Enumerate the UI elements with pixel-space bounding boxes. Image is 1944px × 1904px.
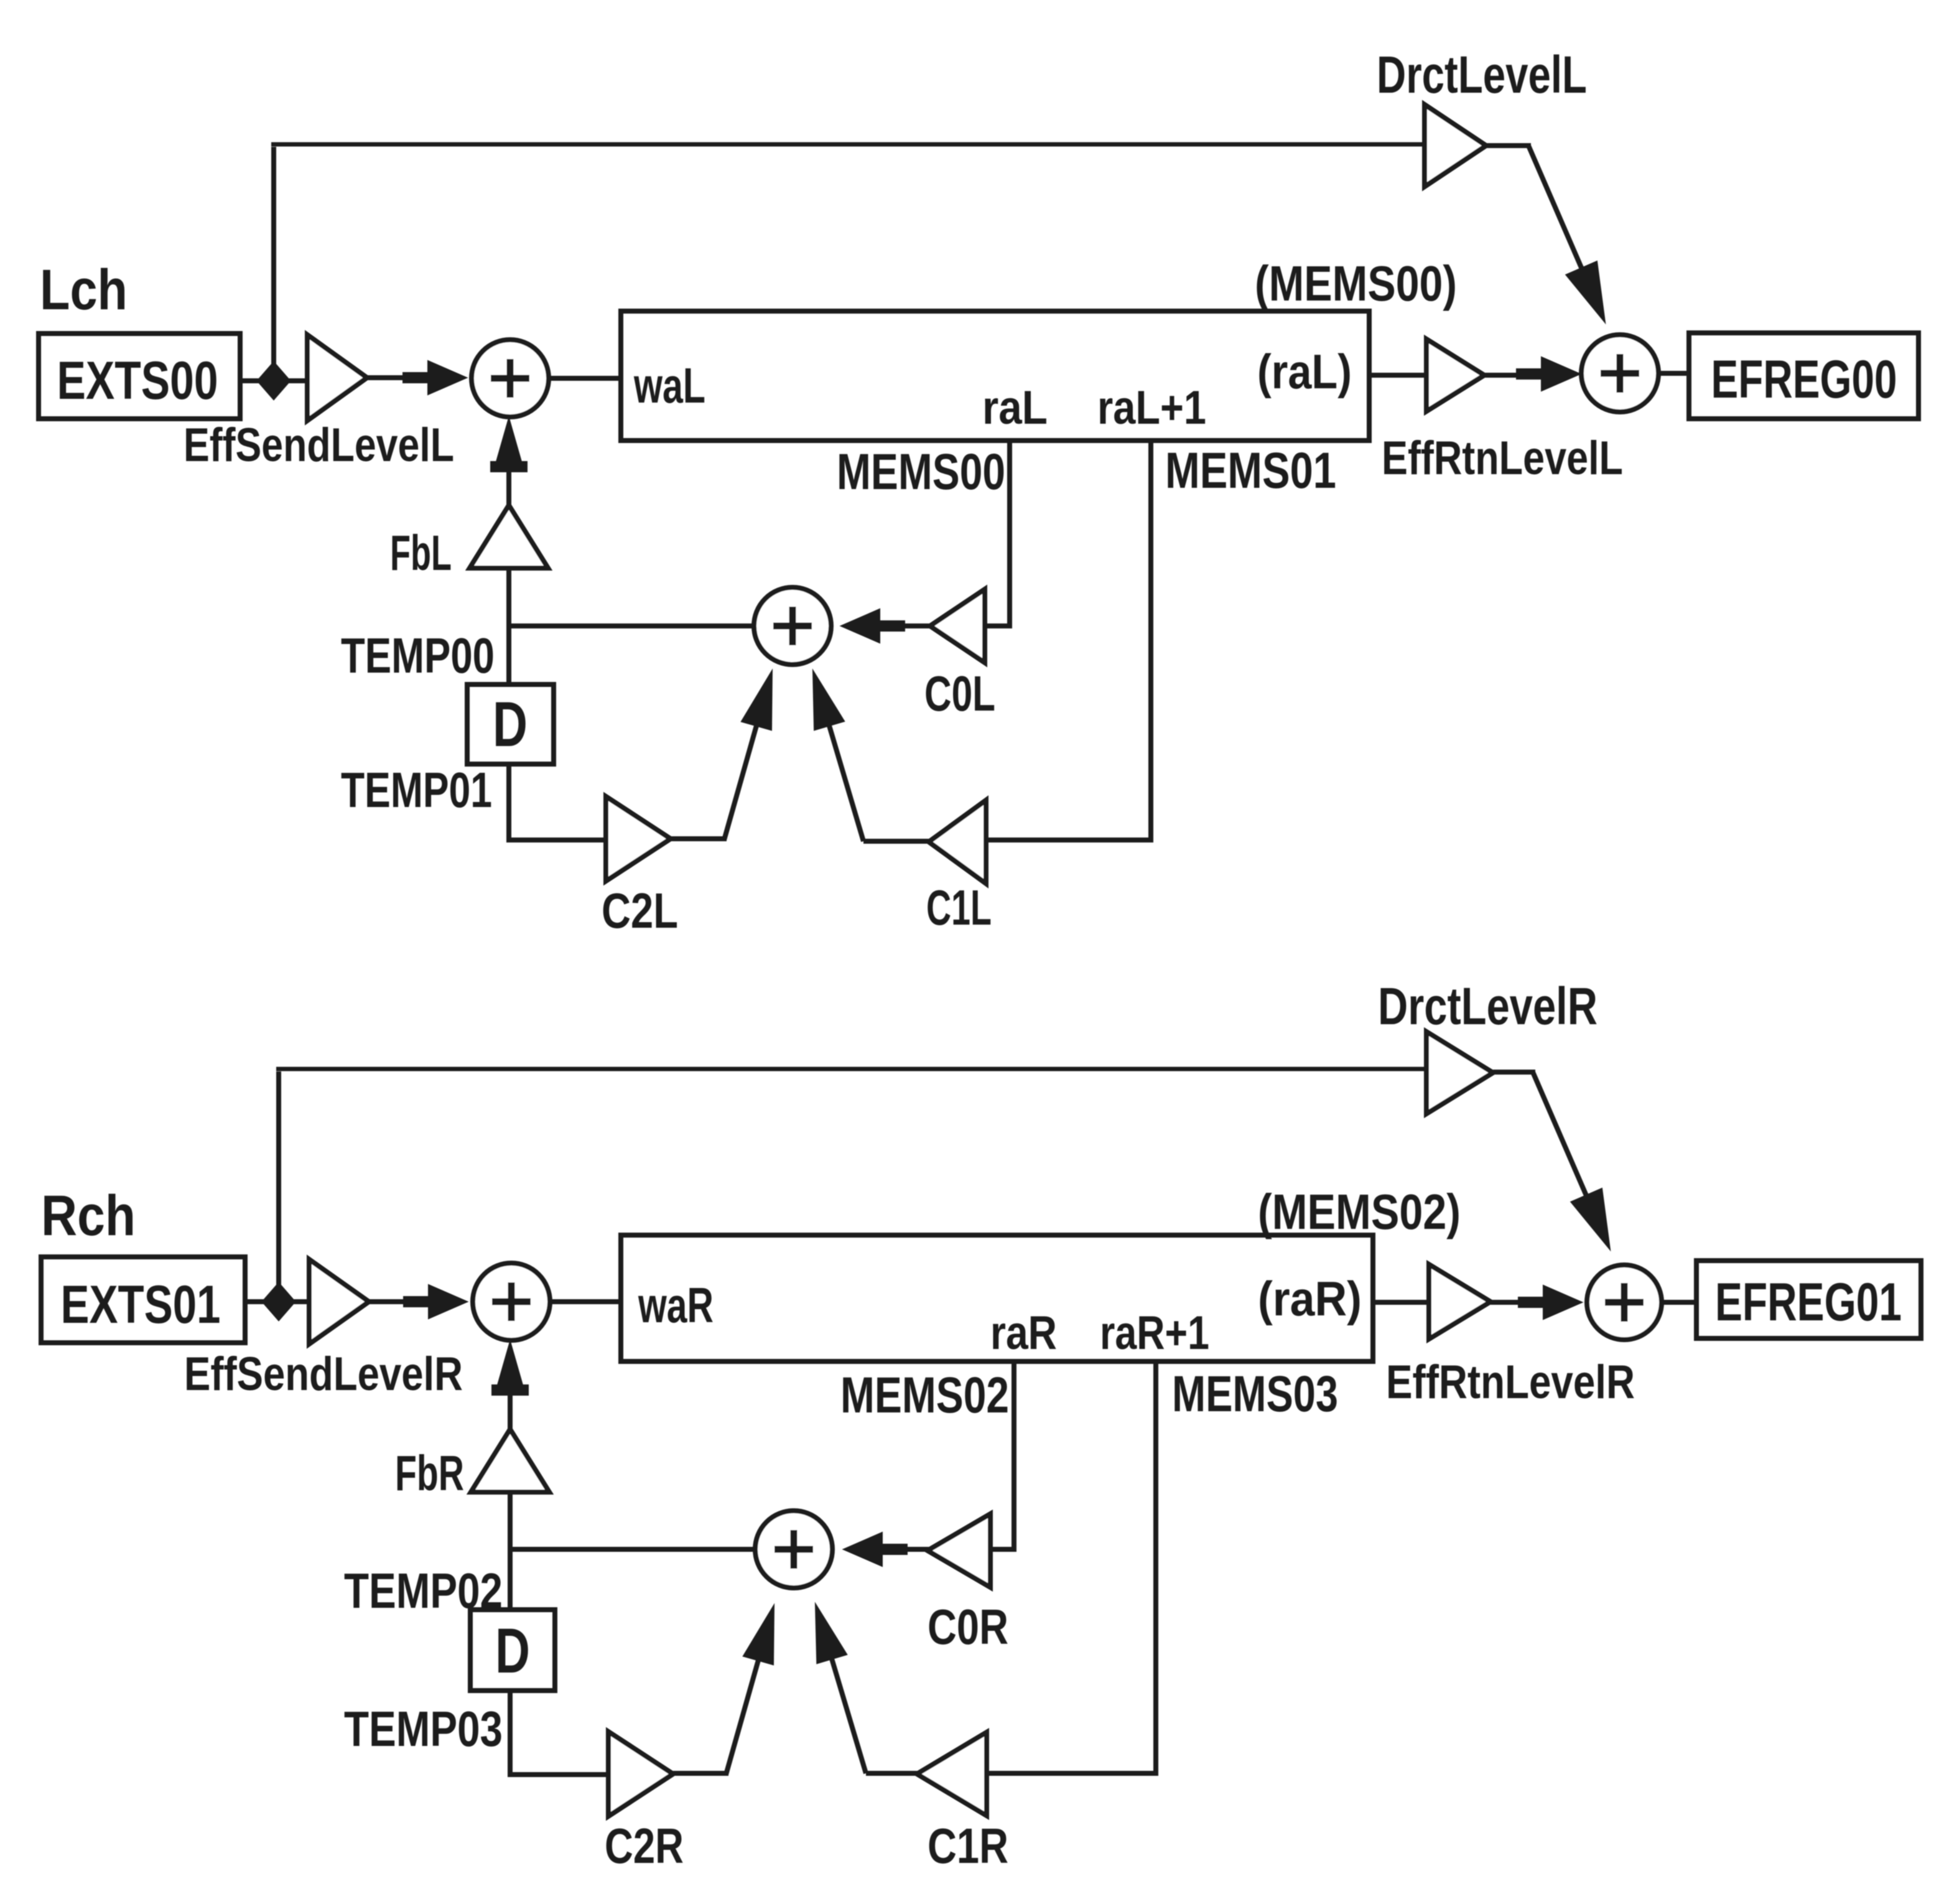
- amp EffRtnLevelL: [1426, 339, 1484, 411]
- svg-text:EffSendLevelL: EffSendLevelL: [184, 419, 454, 472]
- amp C0L: [930, 589, 985, 663]
- svg-text:TEMP00: TEMP00: [341, 628, 495, 683]
- arrow C0L into adder S2L: [841, 609, 905, 643]
- svg-text:EffSendLevelR: EffSendLevelR: [184, 1348, 463, 1401]
- wire junction up to direct path R: [276, 1071, 281, 1302]
- wire tap MEMS02 raR: [990, 1361, 1014, 1549]
- wire junction up to direct path: [271, 147, 276, 381]
- wire EffRtnLevelL to arrow: [1484, 373, 1530, 378]
- wire diagonal direct to adder S3L: [1528, 146, 1583, 272]
- adder S3R output: [1587, 1265, 1662, 1340]
- wire diagonal C1R to adder S2R: [818, 1613, 866, 1773]
- wire tap MEMS01 raL+1: [986, 441, 1151, 840]
- arrow C2R into adder S2R: [743, 1605, 774, 1664]
- arrow C1L into adder S2L: [813, 671, 844, 730]
- arrow direct into adder S3L: [1566, 261, 1605, 322]
- wire FbL to adder S1L: [506, 436, 511, 506]
- adder S2L: [754, 587, 831, 665]
- wire amp to arrow: [367, 375, 435, 380]
- amp FbL: [470, 505, 548, 568]
- svg-text:MEMS03: MEMS03: [1172, 1366, 1338, 1422]
- wire C1L out: [863, 839, 931, 844]
- wire EXTS00 to junction: [240, 378, 307, 383]
- svg-text:C2R: C2R: [605, 1818, 684, 1874]
- wire EXTS01 to junction: [245, 1299, 311, 1304]
- wire direct path top Rch: [276, 1067, 1428, 1071]
- wire EffRtnLevelR to arrow: [1491, 1300, 1532, 1305]
- amp C1L: [929, 800, 986, 884]
- svg-text:(raL): (raL): [1257, 344, 1352, 399]
- adder S2R: [755, 1511, 832, 1588]
- wire feedback vertical TEMP02: [508, 1492, 513, 1611]
- arrow feedback into adder S1L: [491, 418, 527, 472]
- amp EffRtnLevelR: [1429, 1264, 1491, 1339]
- delay block D (Rch): [470, 1610, 555, 1691]
- svg-text:C1L: C1L: [926, 880, 992, 935]
- svg-text:D: D: [495, 1615, 530, 1686]
- svg-text:C1R: C1R: [928, 1818, 1008, 1874]
- wire FbR to adder S1R: [508, 1359, 513, 1430]
- wire amp to arrow R: [369, 1299, 437, 1304]
- adder S1R: [473, 1263, 550, 1340]
- svg-text:(raR): (raR): [1258, 1271, 1362, 1326]
- wire adder S3R to EFREG01: [1662, 1300, 1699, 1305]
- svg-text:TEMP01: TEMP01: [341, 762, 492, 818]
- wire tap MEMS03 raR+1: [989, 1361, 1156, 1773]
- svg-text:(MEMS00): (MEMS00): [1255, 256, 1457, 311]
- svg-text:Lch: Lch: [40, 258, 128, 322]
- amp EffSendLevelR: [309, 1259, 369, 1344]
- arrow C1R into adder S2R: [816, 1604, 847, 1663]
- svg-text:raL: raL: [982, 381, 1048, 434]
- output register EFREG01: [1696, 1261, 1921, 1338]
- wire diagonal direct to adder S3R: [1533, 1072, 1588, 1198]
- svg-text:D: D: [493, 689, 528, 760]
- adder S3L output: [1581, 335, 1658, 412]
- wire memory out to amp EffRtnLevelL: [1369, 373, 1429, 378]
- svg-text:MEMS01: MEMS01: [1165, 442, 1336, 499]
- arrow feedback into adder S1R: [492, 1342, 528, 1395]
- wire adder S3L to EFREG00: [1658, 371, 1691, 376]
- svg-text:EXTS01: EXTS01: [61, 1275, 221, 1335]
- input register EXTS01: [41, 1257, 245, 1343]
- wire DrctLevelL out: [1486, 143, 1531, 148]
- arrow direct into adder S3R: [1571, 1188, 1610, 1249]
- svg-text:MEMS00: MEMS00: [837, 444, 1005, 500]
- arrow into adder S3R: [1518, 1286, 1582, 1319]
- wire DrctLevelR out: [1493, 1070, 1535, 1075]
- svg-text:Rch: Rch: [41, 1184, 136, 1248]
- svg-text:DrctLevelL: DrctLevelL: [1377, 45, 1587, 104]
- arrow into adder S3L: [1517, 357, 1580, 391]
- svg-text:raR: raR: [990, 1307, 1057, 1360]
- wire C2L out: [671, 836, 727, 841]
- svg-text:DrctLevelR: DrctLevelR: [1378, 977, 1598, 1035]
- svg-text:C0L: C0L: [924, 666, 995, 721]
- svg-text:waL: waL: [633, 358, 705, 413]
- wire tap MEMS00 raL: [985, 441, 1010, 626]
- amp C2L: [606, 796, 671, 881]
- wire feedback vertical TEMP00: [506, 568, 511, 686]
- svg-text:EFREG01: EFREG01: [1715, 1272, 1902, 1332]
- memory block MEMS02/MEMS03 delay line: [621, 1235, 1373, 1361]
- wire C2R out: [673, 1771, 728, 1776]
- amp C0R: [928, 1514, 990, 1587]
- amp FbR: [471, 1429, 549, 1492]
- arrow into adder S1L: [403, 361, 467, 394]
- arrow into adder S1R: [404, 1285, 467, 1318]
- wire C0R to arrow: [901, 1547, 930, 1552]
- wire D to C2R: [510, 1691, 611, 1775]
- wire D to C2L: [509, 764, 608, 840]
- wire direct path top Lch: [271, 142, 1426, 147]
- delay block D (Lch): [467, 684, 554, 764]
- wire adder S2R to node TEMP02: [510, 1547, 756, 1552]
- junction dot node EXTS01 out: [262, 1282, 295, 1321]
- svg-text:EFREG00: EFREG00: [1711, 350, 1897, 409]
- wire diagonal C2L to adder S2L: [724, 679, 770, 840]
- wire diagonal C1L to adder S2L: [816, 679, 863, 841]
- junction dot node EXTS00 out: [257, 362, 291, 400]
- amp C1R: [917, 1732, 987, 1816]
- amp DrctLevelR: [1426, 1032, 1493, 1114]
- svg-text:MEMS02: MEMS02: [840, 1367, 1009, 1424]
- svg-text:(MEMS02): (MEMS02): [1258, 1184, 1461, 1239]
- output register EFREG00: [1689, 333, 1918, 419]
- svg-text:raL+1: raL+1: [1097, 381, 1206, 434]
- arrow C2L into adder S2L: [742, 671, 772, 730]
- svg-text:EffRtnLevelR: EffRtnLevelR: [1386, 1356, 1635, 1409]
- wire memory out to amp EffRtnLevelR: [1373, 1300, 1431, 1305]
- arrow C0R into adder S2R: [844, 1533, 907, 1566]
- wire diagonal C2R to adder S2R: [726, 1614, 771, 1775]
- wire adder S1R to memory R: [550, 1299, 623, 1304]
- svg-text:C2L: C2L: [602, 883, 678, 938]
- svg-text:EffRtnLevelL: EffRtnLevelL: [1382, 432, 1623, 485]
- memory block MEMS00/MEMS01 delay line: [621, 311, 1369, 441]
- wire adder S2L to node TEMP00: [509, 623, 755, 628]
- wire adder S1L to memory: [549, 376, 623, 381]
- wire C1R out: [866, 1771, 919, 1776]
- amp C2R: [608, 1732, 673, 1816]
- amp EffSendLevelL: [307, 335, 367, 421]
- input register EXTS00: [39, 334, 240, 419]
- svg-text:FbL: FbL: [390, 525, 452, 581]
- svg-text:TEMP03: TEMP03: [344, 1701, 503, 1757]
- svg-text:waR: waR: [638, 1277, 714, 1333]
- svg-text:C0R: C0R: [928, 1599, 1008, 1654]
- amp DrctLevelL: [1425, 105, 1486, 187]
- wire C0L to arrow: [896, 623, 930, 628]
- svg-text:FbR: FbR: [395, 1445, 464, 1501]
- svg-text:EXTS00: EXTS00: [57, 351, 218, 411]
- adder S1L: [472, 340, 549, 417]
- svg-text:raR+1: raR+1: [1100, 1307, 1209, 1360]
